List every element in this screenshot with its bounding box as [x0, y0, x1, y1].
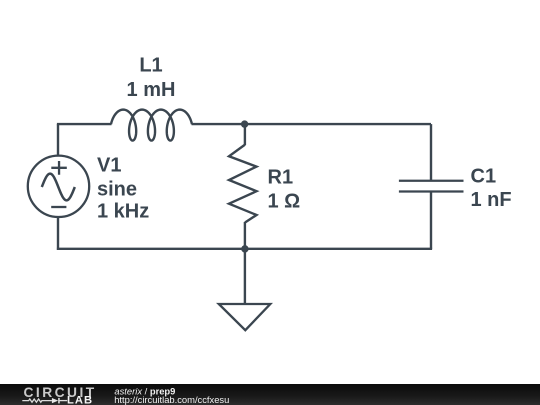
- svg-text:C1: C1: [471, 166, 497, 188]
- inductor L1: [111, 110, 192, 141]
- wire top-left vertical from V1 to top rail: [57, 124, 59, 156]
- wire resistor branch bottom: [244, 222, 246, 249]
- wire top rail left segment: [57, 123, 112, 125]
- wire top rail right segment: [192, 123, 432, 125]
- svg-text:LAB: LAB: [67, 395, 93, 405]
- label R1 "R1 / 1 Ω": [268, 166, 301, 212]
- wire ground stem: [244, 249, 246, 304]
- wire resistor branch top: [244, 124, 246, 145]
- wire V1 bottom vertical: [57, 217, 59, 250]
- svg-text:L1: L1: [139, 55, 162, 77]
- svg-text:sine: sine: [97, 179, 137, 201]
- node junction dot bottom (ground net): [241, 245, 248, 252]
- wire capacitor branch top: [430, 124, 432, 181]
- footer bar background: [0, 384, 540, 405]
- capacitor C1 plates: [399, 181, 464, 192]
- svg-text:1 nF: 1 nF: [471, 189, 512, 211]
- CircuitLab logo resistor squiggle and diode: [22, 399, 67, 402]
- svg-text:http://circuitlab.com/ccfxesu: http://circuitlab.com/ccfxesu: [114, 394, 229, 405]
- label L1 "L1 / 1 mH": [127, 55, 176, 101]
- svg-text:V1: V1: [97, 154, 121, 176]
- svg-text:1 mH: 1 mH: [127, 79, 176, 101]
- label V1 "V1 / sine / 1 kHz": [97, 154, 149, 222]
- svg-text:1 kHz: 1 kHz: [97, 201, 149, 223]
- node junction dot top (node A): [241, 120, 248, 127]
- resistor R1 zigzag: [229, 145, 257, 223]
- svg-text:R1: R1: [268, 166, 294, 188]
- voltage source V1 (circle, sine, plus, minus): [28, 156, 89, 217]
- wire capacitor branch bottom: [430, 192, 432, 249]
- label C1 "C1 / 1 nF": [471, 166, 512, 212]
- wire bottom rail: [57, 248, 432, 250]
- svg-text:1 Ω: 1 Ω: [268, 191, 301, 213]
- ground symbol triangle: [219, 304, 270, 330]
